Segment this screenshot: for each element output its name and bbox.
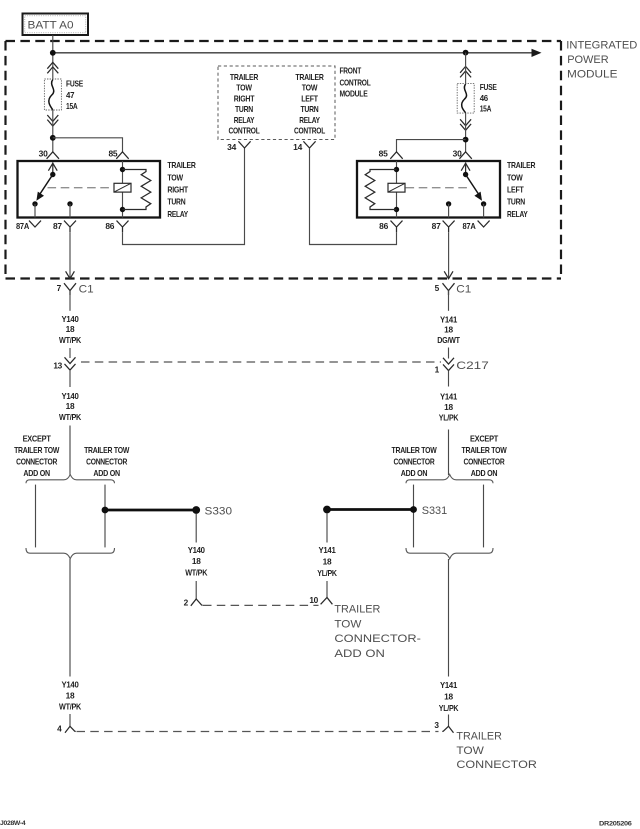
fuse 46 15A bbox=[457, 82, 497, 113]
svg-text:18: 18 bbox=[66, 691, 75, 701]
arrowhead into C1 right bbox=[444, 271, 453, 278]
relay K1 TRAILER TOW RIGHT TURN RELAY box bbox=[18, 161, 161, 218]
svg-text:YL/PK: YL/PK bbox=[439, 413, 459, 423]
relay K2 switch arm to 87A bbox=[466, 175, 482, 201]
svg-text:CONNECTOR: CONNECTOR bbox=[464, 457, 505, 467]
svg-text:5: 5 bbox=[435, 283, 440, 293]
wire right branch to trailer tow connector bbox=[448, 559, 450, 677]
wire into connector pin 2 bbox=[195, 581, 197, 599]
svg-text:LEFT: LEFT bbox=[301, 93, 318, 103]
label wire Y140 18 WT/PK (bottom) bbox=[59, 680, 81, 712]
svg-text:BATT A0: BATT A0 bbox=[28, 20, 74, 32]
option split brace bottom left bbox=[26, 548, 115, 559]
svg-text:18: 18 bbox=[444, 402, 453, 412]
svg-text:ADD ON: ADD ON bbox=[401, 468, 428, 478]
svg-text:4: 4 bbox=[57, 724, 62, 734]
splice S331 left node bbox=[323, 506, 331, 514]
svg-text:RELAY: RELAY bbox=[234, 115, 255, 125]
wire option branch right-outer bbox=[483, 485, 485, 548]
wire below connector 13 bbox=[69, 370, 71, 387]
svg-text:46: 46 bbox=[480, 93, 489, 103]
svg-text:Y141: Y141 bbox=[440, 314, 458, 324]
wire into connector pin 3 bbox=[448, 715, 450, 727]
svg-text:10: 10 bbox=[309, 595, 318, 605]
svg-text:30: 30 bbox=[453, 148, 462, 158]
svg-text:CONNECTOR: CONNECTOR bbox=[16, 457, 57, 467]
label TRAILER TOW RIGHT TURN RELAY bbox=[167, 160, 195, 219]
wire Y141 upper segment bbox=[448, 291, 450, 311]
svg-text:EXCEPT: EXCEPT bbox=[470, 434, 498, 444]
node relay K1 common bbox=[50, 172, 55, 177]
svg-text:87A: 87A bbox=[16, 221, 29, 231]
svg-text:CONNECTOR: CONNECTOR bbox=[86, 457, 127, 467]
svg-text:TRAILER: TRAILER bbox=[456, 731, 502, 743]
label wire Y140 18 WT/PK (above C217) bbox=[59, 314, 81, 345]
svg-text:18: 18 bbox=[323, 557, 332, 567]
node relay K1 87A bbox=[32, 201, 37, 206]
splice S330 lead bbox=[105, 509, 196, 512]
svg-text:WT/PK: WT/PK bbox=[59, 412, 81, 422]
relay K1 common terminal arrow (pin 30) bbox=[48, 163, 57, 175]
wire option branch left-inner bbox=[104, 485, 106, 548]
svg-text:7: 7 bbox=[57, 283, 62, 293]
svg-text:TOW: TOW bbox=[302, 83, 318, 93]
wire K2 87 to box edge bbox=[448, 204, 450, 218]
svg-text:Y140: Y140 bbox=[62, 680, 80, 690]
connector C1 pin 7 bbox=[57, 283, 94, 296]
wire 87 to box edge bbox=[69, 204, 71, 218]
svg-text:EXCEPT: EXCEPT bbox=[23, 434, 51, 444]
in-line connector dashed line C217 bbox=[81, 361, 441, 363]
svg-text:CONNECTOR-: CONNECTOR- bbox=[334, 633, 421, 645]
svg-text:ADD ON: ADD ON bbox=[334, 648, 385, 660]
splice S331 lead bbox=[327, 508, 414, 511]
label wire Y140 18 WT/PK (below C217) bbox=[59, 391, 81, 422]
pin 14 FCM bbox=[293, 141, 315, 152]
relay K1 switch arm to 87A bbox=[36, 175, 52, 201]
svg-text:TOW: TOW bbox=[334, 618, 362, 630]
svg-text:TRAILER TOW: TRAILER TOW bbox=[462, 445, 507, 455]
svg-text:RELAY: RELAY bbox=[167, 209, 188, 219]
relay K2 coil resistor bbox=[365, 170, 396, 210]
svg-text:FRONT: FRONT bbox=[340, 66, 362, 76]
fuse 47 15A bbox=[44, 78, 83, 111]
pin 30 relay K2 bbox=[453, 148, 472, 158]
svg-text:Y141: Y141 bbox=[440, 680, 458, 690]
label TRAILER TOW CONNECTOR ADD ON (left inner) bbox=[84, 445, 129, 478]
label TRAILER TOW RIGHT TURN RELAY CONTROL (FCM left) bbox=[229, 72, 260, 136]
svg-text:TRAILER: TRAILER bbox=[507, 160, 535, 170]
pin 87A relay K1 bbox=[16, 221, 41, 231]
label TRAILER TOW CONNECTOR- ADD ON bbox=[334, 604, 421, 660]
svg-text:TURN: TURN bbox=[235, 104, 253, 114]
node relay K2 87 bbox=[446, 201, 451, 206]
wire Y140 upper segment bbox=[69, 291, 71, 311]
svg-text:TRAILER: TRAILER bbox=[334, 604, 380, 616]
svg-text:86: 86 bbox=[379, 221, 388, 231]
relay K1 actuation dashed link bbox=[48, 187, 114, 189]
svg-text:CONNECTOR: CONNECTOR bbox=[394, 457, 435, 467]
Front Control Module dashed box bbox=[218, 66, 335, 140]
wire option branch right-inner bbox=[413, 485, 415, 548]
svg-text:2: 2 bbox=[184, 597, 189, 607]
svg-text:Y141: Y141 bbox=[440, 392, 458, 402]
label wire Y141 18 DG/WT bbox=[437, 314, 460, 345]
svg-text:CONTROL: CONTROL bbox=[294, 126, 325, 136]
label INTEGRATED POWER MODULE bbox=[566, 40, 637, 81]
wire into connector pin 10 bbox=[326, 581, 328, 598]
wire into connector 13 bbox=[69, 348, 71, 358]
svg-text:CONTROL: CONTROL bbox=[229, 126, 260, 136]
pin 86 relay K2 bbox=[379, 221, 402, 233]
connector C1 pin 5 bbox=[435, 283, 472, 296]
wire left branch to trailer tow connector bbox=[69, 559, 71, 677]
svg-text:S330: S330 bbox=[205, 505, 233, 517]
svg-text:TRAILER TOW: TRAILER TOW bbox=[84, 445, 129, 455]
svg-text:WT/PK: WT/PK bbox=[185, 568, 207, 578]
svg-text:J028W-4: J028W-4 bbox=[0, 820, 26, 827]
wire fuse 47 to relay feed node bbox=[52, 110, 54, 152]
wire 87A to box edge bbox=[34, 204, 36, 218]
wire relay K1 coil column bbox=[122, 161, 124, 218]
svg-text:18: 18 bbox=[66, 324, 75, 334]
svg-text:TRAILER: TRAILER bbox=[295, 72, 323, 82]
svg-text:TOW: TOW bbox=[167, 172, 183, 182]
svg-text:C217: C217 bbox=[456, 360, 489, 372]
svg-text:TRAILER: TRAILER bbox=[167, 160, 195, 170]
svg-text:TURN: TURN bbox=[507, 197, 525, 207]
svg-text:85: 85 bbox=[379, 148, 388, 158]
node relay K1 87 bbox=[67, 201, 72, 206]
svg-text:34: 34 bbox=[227, 142, 236, 152]
wire BATT A0 down to bus bbox=[52, 35, 54, 80]
svg-text:TOW: TOW bbox=[236, 83, 252, 93]
svg-text:15A: 15A bbox=[480, 103, 492, 113]
svg-text:18: 18 bbox=[444, 325, 453, 335]
node relay K2 87A bbox=[481, 201, 486, 206]
label TRAILER TOW LEFT TURN RELAY CONTROL (FCM right) bbox=[294, 72, 325, 136]
node relay K2 coil top bbox=[394, 167, 399, 172]
node bus fuse-46 tap bbox=[463, 50, 469, 56]
svg-text:Y140: Y140 bbox=[62, 391, 80, 401]
svg-text:DR205206: DR205206 bbox=[599, 821, 632, 828]
node relay K2 coil bottom bbox=[394, 207, 399, 212]
wire into connector C217 bbox=[448, 348, 450, 359]
svg-text:18: 18 bbox=[66, 401, 75, 411]
node bus left junction bbox=[50, 50, 56, 56]
wire S330 drop bbox=[195, 514, 197, 543]
svg-text:87: 87 bbox=[432, 221, 441, 231]
svg-text:ADD ON: ADD ON bbox=[23, 468, 50, 478]
relay K1 coil bbox=[114, 183, 131, 192]
label wire Y141 18 YL/PK (below C217) bbox=[439, 392, 459, 423]
wire FCM pin 14 to relay K2 pin 86 bbox=[310, 148, 397, 245]
node splice tap on right-inner branch bbox=[410, 506, 417, 513]
svg-text:YL/PK: YL/PK bbox=[439, 703, 459, 713]
svg-text:18: 18 bbox=[192, 556, 201, 566]
svg-text:Y140: Y140 bbox=[62, 314, 80, 324]
svg-text:TRAILER: TRAILER bbox=[230, 72, 258, 82]
wire fuse 46 to relay K2 feed bbox=[465, 113, 467, 152]
node BATT A0 feed box bbox=[23, 14, 89, 36]
svg-text:C1: C1 bbox=[79, 283, 94, 295]
svg-text:YL/PK: YL/PK bbox=[317, 568, 337, 578]
relay K2 TRAILER TOW LEFT TURN RELAY box bbox=[357, 161, 500, 218]
wire relay K2 coil column bbox=[396, 161, 398, 218]
svg-text:TRAILER TOW: TRAILER TOW bbox=[392, 445, 437, 455]
relay K2 coil bbox=[388, 183, 405, 192]
node relay K2 common bbox=[463, 172, 468, 177]
label TRAILER TOW CONNECTOR ADD ON (right inner) bbox=[392, 445, 437, 478]
svg-text:3: 3 bbox=[434, 720, 439, 730]
connector pin 2 bbox=[184, 597, 203, 607]
wire K2 87A to box edge bbox=[483, 204, 485, 218]
connector chevrons below fuse 47 bbox=[47, 115, 58, 126]
connector chevrons above fuse 47 bbox=[47, 62, 58, 73]
svg-text:CONTROL: CONTROL bbox=[340, 77, 371, 87]
in-line dashed link pin2 to pin10 bbox=[203, 604, 319, 606]
wire bus tap down through fuse 46 bbox=[465, 53, 467, 84]
svg-text:30: 30 bbox=[39, 148, 48, 158]
connector pin 13 double chevron bbox=[65, 357, 76, 370]
wire relay K1 pin 87 down to C1 bbox=[69, 232, 71, 278]
arrowhead into C1 left bbox=[66, 271, 75, 278]
pin 30 relay K1 bbox=[39, 148, 59, 158]
option split brace bottom right bbox=[406, 548, 493, 559]
svg-text:ADD ON: ADD ON bbox=[93, 468, 120, 478]
svg-text:FUSE: FUSE bbox=[66, 78, 84, 88]
svg-text:47: 47 bbox=[66, 90, 75, 100]
node relay K1 feed bbox=[50, 135, 56, 141]
svg-text:RIGHT: RIGHT bbox=[234, 93, 255, 103]
svg-text:15A: 15A bbox=[66, 101, 78, 111]
svg-text:TURN: TURN bbox=[301, 104, 319, 114]
wire S331 drop bbox=[326, 513, 328, 543]
pin 85 relay K2 bbox=[379, 148, 403, 158]
label wire Y141 18 YL/PK (S331 drop) bbox=[317, 545, 337, 578]
svg-text:1: 1 bbox=[435, 365, 440, 375]
svg-text:RELAY: RELAY bbox=[299, 115, 320, 125]
svg-text:ADD ON: ADD ON bbox=[471, 468, 498, 478]
in-line dashed link pin4 to pin3 bbox=[77, 731, 439, 733]
svg-text:TRAILER TOW: TRAILER TOW bbox=[14, 445, 59, 455]
wire option branch left-outer bbox=[35, 485, 37, 548]
svg-text:MODULE: MODULE bbox=[567, 68, 618, 80]
wire down to option brace right bbox=[448, 430, 450, 476]
svg-text:C1: C1 bbox=[456, 283, 471, 295]
svg-text:LEFT: LEFT bbox=[507, 185, 524, 195]
wire feed node to pin 85 riser bbox=[53, 138, 123, 152]
svg-text:RIGHT: RIGHT bbox=[167, 185, 188, 195]
connector chevrons below fuse 46 bbox=[460, 119, 471, 130]
svg-text:WT/PK: WT/PK bbox=[59, 702, 81, 712]
connector chevrons above fuse 46 bbox=[460, 66, 471, 77]
wire feed node to pin 85 riser (K2) bbox=[397, 140, 466, 152]
relay K1 coil resistor bbox=[123, 170, 151, 210]
svg-text:Y140: Y140 bbox=[188, 545, 206, 555]
label TRAILER TOW CONNECTOR bbox=[456, 731, 537, 772]
splice S330 bbox=[192, 506, 200, 514]
svg-text:WT/PK: WT/PK bbox=[59, 335, 81, 345]
label EXCEPT TRAILER TOW CONNECTOR ADD ON (left outer) bbox=[14, 434, 59, 479]
wire down to option brace left bbox=[69, 426, 71, 476]
label wire Y141 18 YL/PK (bottom) bbox=[439, 680, 459, 713]
svg-text:DG/WT: DG/WT bbox=[437, 335, 460, 345]
pin 87 relay K1 bbox=[53, 221, 76, 233]
svg-text:18: 18 bbox=[444, 692, 453, 702]
svg-text:Y141: Y141 bbox=[319, 545, 337, 555]
wire below C217 bbox=[448, 371, 450, 387]
svg-text:CONNECTOR: CONNECTOR bbox=[456, 759, 537, 771]
wire relay K1 pin 86 to FCM pin 34 bbox=[123, 148, 245, 245]
node relay K1 coil bottom bbox=[120, 207, 125, 212]
connector pin 4 bbox=[57, 724, 76, 734]
svg-text:INTEGRATED: INTEGRATED bbox=[566, 40, 637, 52]
option split brace top right bbox=[406, 474, 493, 483]
relay K2 common terminal arrow (pin 30) bbox=[461, 163, 470, 175]
label EXCEPT TRAILER TOW CONNECTOR ADD ON (right outer) bbox=[462, 434, 507, 479]
svg-text:87A: 87A bbox=[463, 221, 476, 231]
option split brace top left bbox=[26, 474, 115, 483]
pin 87 relay K2 bbox=[432, 221, 455, 233]
svg-text:TOW: TOW bbox=[456, 745, 484, 757]
svg-text:TURN: TURN bbox=[167, 197, 185, 207]
pin 85 relay K1 bbox=[109, 148, 129, 158]
svg-text:87: 87 bbox=[53, 221, 62, 231]
svg-text:14: 14 bbox=[293, 142, 302, 152]
node splice tap on left-inner branch bbox=[102, 507, 109, 514]
relay K2 actuation dashed link bbox=[406, 187, 472, 189]
connector pin 10 bbox=[309, 595, 332, 605]
svg-text:MODULE: MODULE bbox=[340, 89, 369, 99]
svg-text:86: 86 bbox=[105, 221, 114, 231]
wire bus horizontal B+ bbox=[53, 52, 533, 54]
svg-text:S331: S331 bbox=[422, 505, 448, 517]
svg-text:13: 13 bbox=[53, 360, 62, 370]
label TRAILER TOW LEFT TURN RELAY bbox=[507, 160, 535, 219]
wire into connector pin 4 bbox=[69, 714, 71, 726]
pin 87A relay K2 bbox=[463, 221, 490, 231]
label FRONT CONTROL MODULE bbox=[340, 66, 371, 99]
bus arrowhead bbox=[532, 49, 542, 57]
node relay K1 coil top bbox=[120, 167, 125, 172]
wire relay K2 pin 87 down to C1 bbox=[448, 232, 450, 278]
pin 86 relay K1 bbox=[105, 221, 128, 233]
pin 34 FCM bbox=[227, 141, 250, 152]
svg-text:FUSE: FUSE bbox=[480, 82, 498, 92]
connector pin 3 bbox=[434, 720, 453, 733]
svg-text:POWER: POWER bbox=[567, 54, 609, 66]
svg-text:85: 85 bbox=[109, 148, 118, 158]
svg-text:TOW: TOW bbox=[507, 172, 523, 182]
node relay K2 feed bbox=[463, 137, 469, 143]
Integrated Power Module dashed box bbox=[6, 41, 562, 279]
label wire Y140 18 WT/PK (S330 drop) bbox=[185, 545, 207, 578]
svg-text:RELAY: RELAY bbox=[507, 209, 528, 219]
connector C217 pin 1 double chevron bbox=[443, 358, 454, 371]
